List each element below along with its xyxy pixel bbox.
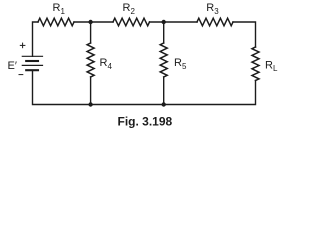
svg-text:E′: E′ [8,60,17,72]
battery E' plate long top [22,55,42,57]
node B junction dot [162,20,166,24]
battery E' plate short thick 2 [26,69,38,71]
resistor R3 [197,18,233,26]
svg-text:R2: R2 [123,2,136,16]
battery plus sign [20,43,25,48]
node A junction dot [88,20,92,24]
wire right-bottom segment [33,70,256,104]
wire top-left segment [33,22,39,56]
svg-text:R1: R1 [53,2,66,16]
wire R2 to node B [150,21,198,23]
battery minus sign [19,74,23,76]
wire branch R4 bottom [90,77,92,105]
resistor R1 [38,18,74,26]
resistor R2 [113,18,150,26]
battery E' plate long 2 [22,64,42,66]
wire branch R5 top [163,22,165,43]
wire top-right corner [233,22,256,47]
wire branch R4 top [90,22,92,43]
node D junction dot (bottom right) [162,102,166,106]
svg-text:R3: R3 [206,2,219,16]
wire R1 to node A [74,21,113,23]
resistor R5 [160,43,167,77]
resistor R4 [87,43,94,77]
svg-text:R5: R5 [174,57,187,71]
node C junction dot (bottom left) [88,102,92,106]
svg-text:R4: R4 [100,57,113,71]
svg-text:RL: RL [265,60,278,74]
wire branch R5 bottom [163,77,165,105]
resistor RL [252,47,259,81]
svg-text:Fig. 3.198: Fig. 3.198 [118,115,173,129]
battery E' plate short thick 1 [26,60,38,62]
